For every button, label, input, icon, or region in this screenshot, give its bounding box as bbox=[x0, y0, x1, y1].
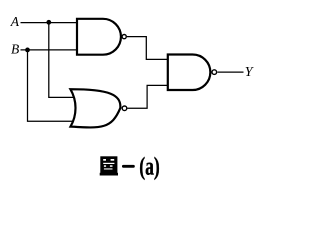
svg-text:A: A bbox=[10, 14, 20, 29]
svg-text:(a): (a) bbox=[139, 152, 160, 180]
svg-text:Y: Y bbox=[245, 65, 255, 80]
svg-text:B: B bbox=[11, 42, 19, 57]
